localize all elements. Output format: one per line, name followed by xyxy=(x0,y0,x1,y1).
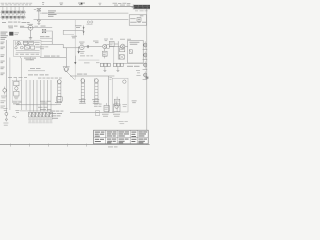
junction device U2 xyxy=(103,44,110,48)
junction enclosure xyxy=(112,78,128,112)
selector SW1 xyxy=(63,67,75,80)
zone label E xyxy=(113,3,131,6)
label right of enclosure xyxy=(132,100,137,103)
wire L9 xyxy=(125,45,128,47)
fuse bank row 1 xyxy=(1,7,25,15)
wire L5 xyxy=(63,34,74,36)
wire L8 xyxy=(109,46,120,48)
label right of ref box xyxy=(14,32,19,35)
margin connector P1 xyxy=(143,41,148,49)
wire L4 xyxy=(63,29,83,31)
valve to riser wire xyxy=(46,30,52,32)
arrow drop A xyxy=(78,47,80,54)
vertical wire W2 xyxy=(33,80,35,112)
left bus riser A xyxy=(6,40,8,113)
riser x66 xyxy=(65,48,67,67)
riser x75 lower xyxy=(74,65,76,80)
margin connector P2 xyxy=(143,51,148,59)
slanted label xyxy=(93,41,99,44)
sheet number text xyxy=(108,146,118,147)
drop wire with arrows xyxy=(83,25,85,35)
riser from cluster x21.5 xyxy=(21,58,23,110)
aux device A2 xyxy=(113,102,120,117)
leader wire to note xyxy=(40,12,47,14)
cap bank left label xyxy=(15,110,19,113)
label near L4 xyxy=(75,25,82,28)
sheet border right edge xyxy=(146,7,148,145)
note text top-left margin xyxy=(1,3,33,5)
wire U3 out xyxy=(114,43,118,45)
left bus riser B xyxy=(9,58,11,111)
dark approval stamp xyxy=(132,4,150,9)
drop to filter xyxy=(104,49,106,52)
label x105 xyxy=(104,39,108,41)
heater H1 xyxy=(114,97,119,112)
filter Z1 xyxy=(103,51,108,56)
title block text xyxy=(95,132,147,144)
bus label y74 xyxy=(77,73,87,76)
bus wire y104.8 xyxy=(16,104,56,106)
ground symbol G1 xyxy=(29,38,32,40)
label rows x40 y46 xyxy=(40,46,48,49)
left note y100 xyxy=(1,100,6,108)
vertical wire W6 xyxy=(47,80,49,112)
instrument box U1 xyxy=(129,15,146,25)
ground lead xyxy=(30,30,32,37)
dashed note under cabinet xyxy=(127,66,140,67)
label row y74 xyxy=(28,73,49,76)
note text block A xyxy=(48,10,57,16)
relay K1 xyxy=(15,41,20,49)
label row y77.6 mid xyxy=(38,77,62,80)
label right y121 xyxy=(119,121,128,124)
wire L3 xyxy=(20,27,52,29)
faint conductor list xyxy=(78,60,99,64)
arrow drop B xyxy=(74,56,76,65)
wire L11 labeled xyxy=(28,68,45,71)
zone label C xyxy=(78,3,85,6)
stub wire x63 xyxy=(62,30,64,34)
fuse bank row 2 xyxy=(1,16,25,20)
meter M1 xyxy=(27,24,33,30)
wire L10 labeled xyxy=(40,56,66,58)
note text block C xyxy=(50,111,63,119)
revision tick mark xyxy=(42,2,44,5)
dark reference box xyxy=(9,32,13,36)
riser x118 xyxy=(117,41,119,59)
capacitor C1 xyxy=(87,45,88,48)
pilot lamp DS1 xyxy=(1,87,7,99)
wire L6 xyxy=(40,37,52,39)
resistor chain RC xyxy=(95,78,99,102)
tilde mark xyxy=(12,116,16,117)
wire y63.5 xyxy=(123,63,146,65)
control unit enclosure xyxy=(14,40,41,56)
vertical wire W1 xyxy=(29,80,31,112)
enclosure top label xyxy=(109,77,112,80)
cluster leg right xyxy=(30,57,32,61)
TB1 caption xyxy=(12,102,22,105)
bus riser x108 xyxy=(107,76,109,112)
resistor chain R1 xyxy=(57,80,61,103)
relay K2 xyxy=(20,46,23,49)
sheet border top edge xyxy=(0,6,150,8)
surge arrester E1 xyxy=(34,9,41,20)
bus wire y112.5 xyxy=(70,112,114,114)
cluster wiring row 2 xyxy=(16,52,40,54)
vertical wire W0 xyxy=(25,80,27,110)
capacitor bank row xyxy=(20,111,53,123)
signal wire step xyxy=(41,44,80,48)
zone label D xyxy=(99,3,102,5)
text under stamp xyxy=(135,9,148,12)
aux relay K6 xyxy=(31,46,35,49)
label under L5 xyxy=(72,36,78,39)
note text block B xyxy=(1,32,9,40)
caption below y104.8 xyxy=(38,107,52,110)
aux device A1 xyxy=(102,103,109,117)
legend caption xyxy=(2,22,30,23)
resistor chain RB xyxy=(81,78,85,102)
label row mid-left xyxy=(40,35,49,38)
cluster labels xyxy=(34,42,40,48)
label y55 row xyxy=(80,55,107,56)
left label row y77 xyxy=(8,76,27,79)
label right of meter xyxy=(34,25,38,28)
vertical wire W7 xyxy=(50,80,52,112)
contact group G1 xyxy=(100,63,110,71)
cluster caption xyxy=(24,58,36,61)
margin connector P3 xyxy=(143,61,148,69)
bottom-left device xyxy=(3,108,8,125)
contactor block K4 xyxy=(29,41,34,44)
signal wire L7 xyxy=(84,46,102,48)
vertical wire W5 xyxy=(43,80,45,112)
bus wire L2 xyxy=(34,19,129,21)
relay box K7 xyxy=(120,48,125,52)
title block frame xyxy=(94,130,149,144)
ground electrode xyxy=(37,20,40,24)
aux relay K5 xyxy=(24,46,29,50)
motor M2 xyxy=(79,42,85,54)
vertical wire W4 xyxy=(40,80,42,112)
left margin label column xyxy=(1,42,5,76)
terminal strip TB1 xyxy=(12,78,22,101)
zone tick marks xyxy=(11,144,87,147)
detector X1 xyxy=(121,44,125,48)
label row left xyxy=(8,26,24,29)
terminal cabinet xyxy=(128,40,144,63)
sensor box U3 xyxy=(109,41,114,46)
sheet background xyxy=(0,0,150,150)
riser x75 xyxy=(74,20,76,56)
labels above right boxes xyxy=(110,39,131,40)
cluster leg left xyxy=(20,57,22,59)
cluster wiring row 1 xyxy=(16,50,40,52)
cluster out wire 2 xyxy=(41,40,52,42)
caption left of A1 xyxy=(94,104,102,107)
margin connector P4 xyxy=(143,71,148,79)
riser x113.8 xyxy=(113,47,115,63)
contact group G2 xyxy=(113,63,123,71)
bus wire L1 xyxy=(42,12,128,14)
riser wire x52 xyxy=(51,31,53,45)
zone label B xyxy=(60,3,64,6)
valve symbol V1 xyxy=(41,26,46,33)
caption above y104.8 xyxy=(40,101,51,104)
junction pair xyxy=(87,21,93,25)
sheet border bottom edge xyxy=(0,144,150,146)
label right y104 xyxy=(122,104,127,107)
filter stub xyxy=(104,56,106,58)
cluster terminal marks xyxy=(15,44,39,55)
border mark y77 xyxy=(146,77,149,79)
vertical wire W3 xyxy=(36,80,38,112)
chain C caption xyxy=(92,99,99,104)
relay box K8 xyxy=(119,55,124,59)
marks under cabinet xyxy=(136,70,141,76)
horizontal bus y76 xyxy=(70,75,114,77)
chain A terminal block xyxy=(55,97,62,105)
chain B caption xyxy=(79,99,86,104)
contactor block K3 xyxy=(23,41,28,44)
aux device A0 xyxy=(95,111,99,116)
